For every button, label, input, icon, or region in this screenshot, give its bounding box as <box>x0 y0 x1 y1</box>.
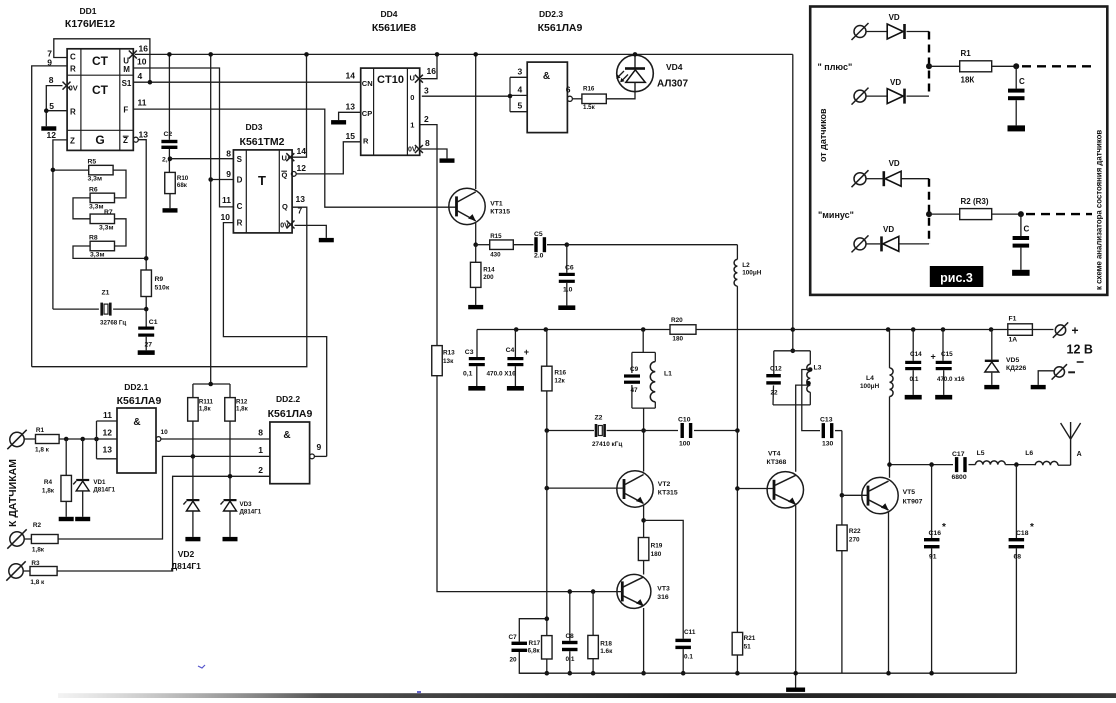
svg-text:CT: CT <box>92 83 109 97</box>
svg-text:1.0: 1.0 <box>563 287 573 294</box>
svg-text:1A: 1A <box>1009 337 1018 344</box>
svg-text:3,3м: 3,3м <box>89 204 103 211</box>
inset resistor R1 <box>960 49 992 85</box>
svg-text:VD: VD <box>890 78 901 87</box>
wire VT5 collector line <box>890 464 954 466</box>
inductor L4 100uH <box>860 330 893 465</box>
wire rail to tank top <box>642 330 644 353</box>
capacitor C16 <box>924 465 946 674</box>
junction C16 node <box>929 462 934 467</box>
label K176IE12 <box>65 18 115 30</box>
capacitor C14 <box>905 330 922 400</box>
svg-text:4: 4 <box>138 71 143 81</box>
inset dashed join minus <box>928 179 930 244</box>
wire mid rail right <box>696 329 793 331</box>
transistor VT2 KT315 <box>617 471 653 507</box>
DD2.1 pin12 label <box>103 428 113 438</box>
svg-text:430: 430 <box>490 252 501 259</box>
pin 10 label <box>137 57 147 67</box>
svg-text:D: D <box>237 176 243 185</box>
svg-text:180: 180 <box>651 551 662 558</box>
capacitor C1 <box>138 319 158 355</box>
DD3 pin8 label <box>226 149 231 159</box>
inset diode VD p1 <box>867 13 930 39</box>
svg-text:270: 270 <box>849 537 860 544</box>
capacitor C6 <box>558 245 575 310</box>
label KT315 (VT1) <box>490 209 510 216</box>
svg-text:8: 8 <box>258 428 263 438</box>
DD4 0V cross mark <box>415 145 423 153</box>
DD2.1 pin13 label <box>103 445 113 455</box>
capacitor C17 <box>952 451 976 481</box>
svg-text:510к: 510к <box>155 285 170 292</box>
svg-text:C14: C14 <box>910 351 922 358</box>
svg-text:КТ907: КТ907 <box>903 499 923 506</box>
svg-text:R4: R4 <box>44 479 53 486</box>
svg-text:Q: Q <box>282 202 288 211</box>
svg-text:R6: R6 <box>89 187 98 194</box>
junction S1/pin7 node <box>148 80 153 85</box>
junction VD4 top bus <box>633 52 638 57</box>
wire DD3 0V to ground <box>295 225 327 238</box>
svg-text:0V: 0V <box>69 84 78 93</box>
label 316 (VT3) <box>657 594 669 601</box>
capacitor C4 <box>487 330 529 391</box>
svg-text:&: & <box>543 71 550 82</box>
inset dashed join plus <box>928 32 930 97</box>
junction D-line vertical A <box>208 177 213 182</box>
inset wire R2 to C <box>992 213 1021 215</box>
DD2.1 output circle <box>156 437 161 442</box>
inset wire to R2 <box>929 213 960 215</box>
svg-text:К561ЛА9: К561ЛА9 <box>268 408 313 420</box>
svg-text:R13: R13 <box>443 350 455 357</box>
resistor R20 <box>670 317 696 343</box>
capacitor C3 <box>463 349 485 391</box>
svg-text:"минус": "минус" <box>818 210 854 220</box>
svg-text:VT3: VT3 <box>657 586 670 593</box>
svg-text:100: 100 <box>679 441 691 448</box>
junction C15 rail <box>941 327 946 332</box>
resistor R21 <box>732 632 756 673</box>
label D814G1 (VD2) <box>171 561 201 571</box>
wire DD2.1 out to DD2.2 pin8 <box>161 438 270 440</box>
DD3 pin14 label <box>297 146 307 156</box>
wire R6 left to R7 <box>73 198 90 219</box>
label VT4 <box>768 451 781 458</box>
svg-text:CP: CP <box>362 109 372 118</box>
DD4 pin15 label <box>346 131 356 141</box>
junction R20 node <box>791 327 796 332</box>
junction rail C3 <box>476 330 478 358</box>
wire DD3 Q pin13 to DD1 R <box>32 207 307 367</box>
junction Z1/C1 node <box>144 307 149 312</box>
svg-text:C2: C2 <box>164 131 173 138</box>
svg-text:C: C <box>70 53 76 62</box>
svg-text:К ДАТЧИКАМ: К ДАТЧИКАМ <box>7 459 19 527</box>
svg-text:3: 3 <box>518 66 523 76</box>
resistor R22 <box>837 495 861 673</box>
wire pin4 S1 to DD4 CN <box>133 81 360 83</box>
svg-text:R10: R10 <box>177 175 189 182</box>
svg-text:R18: R18 <box>600 641 612 648</box>
svg-text:20: 20 <box>510 657 518 664</box>
svg-text:C5: C5 <box>534 231 543 238</box>
svg-text:К561ЛА9: К561ЛА9 <box>538 22 583 34</box>
svg-text:R9: R9 <box>155 276 164 283</box>
svg-text:R8: R8 <box>89 235 98 242</box>
svg-text:КТ315: КТ315 <box>490 209 510 216</box>
inset junction R2/C <box>1018 211 1024 217</box>
svg-text:DD4: DD4 <box>380 9 397 19</box>
svg-text:C16: C16 <box>929 530 942 537</box>
wire C5 node to L2 <box>567 244 738 246</box>
wire pin16 U to supply bus <box>135 53 170 55</box>
junction R4 node <box>64 437 69 442</box>
svg-text:VD: VD <box>883 225 894 234</box>
wire VT3 base line from R13 <box>437 376 622 592</box>
svg-text:5: 5 <box>49 101 54 111</box>
svg-text:68к: 68к <box>177 182 188 189</box>
wire right power rail <box>793 329 991 331</box>
junction R18 rail <box>591 671 596 676</box>
wire F1 to +terminal <box>1032 329 1053 331</box>
svg-text:0,1: 0,1 <box>463 371 473 378</box>
svg-text:C: C <box>237 202 243 211</box>
inset junction minus <box>926 211 932 217</box>
junction L3 tap lower <box>806 381 811 386</box>
svg-text:14: 14 <box>297 146 307 156</box>
junction C11 rail <box>681 671 686 676</box>
svg-text:R7: R7 <box>104 209 113 216</box>
junction rail R16b <box>544 327 549 332</box>
capacitor C12 <box>766 366 782 397</box>
wire VT5 collector up <box>889 465 891 478</box>
junction C18 node <box>1014 462 1019 467</box>
svg-text:2: 2 <box>424 114 429 124</box>
junction vertical A top bus <box>208 52 213 57</box>
DD4 pin2 label <box>424 114 429 124</box>
svg-text:C7: C7 <box>509 634 518 641</box>
ground at DD4 0V <box>440 158 455 162</box>
pin 9 label <box>47 58 52 68</box>
svg-text:316: 316 <box>657 594 669 601</box>
wire R9 to Z1 node <box>145 297 147 327</box>
junction bracket center <box>208 382 213 387</box>
wire L5 to L6 <box>1005 464 1035 466</box>
label KT368 <box>767 459 787 466</box>
wire VT4 base <box>737 488 774 490</box>
wire L3 upper tap to C13 <box>802 370 820 431</box>
IC DD1 K176IE12 counter body <box>67 49 133 151</box>
label minus sign <box>1068 371 1075 373</box>
DD4 pin16 label <box>427 66 437 76</box>
svg-text:АЛ307: АЛ307 <box>657 79 688 90</box>
wire R2 to DD2.2 pin1 <box>58 456 270 539</box>
transistor VT3 316 <box>617 574 651 608</box>
DD3 pin13 label <box>296 194 306 204</box>
tank C9/L1 frame <box>632 352 655 408</box>
svg-text:Z1: Z1 <box>102 290 110 297</box>
wire R16 to LED <box>606 92 635 99</box>
label DD1 <box>79 6 96 16</box>
svg-text:R: R <box>363 136 369 145</box>
pin 5 label <box>49 101 54 111</box>
svg-text:8: 8 <box>49 75 54 85</box>
svg-text:27410 кГц: 27410 кГц <box>592 441 622 448</box>
label VT1 <box>490 201 503 208</box>
DD2.1 pin11 label <box>103 410 112 420</box>
svg-text:11: 11 <box>222 195 231 205</box>
svg-text:Д814Г1: Д814Г1 <box>93 487 115 494</box>
wire pin5 R stub <box>46 110 67 112</box>
svg-text:VD4: VD4 <box>666 62 683 72</box>
DD3 pin11 label <box>222 195 231 205</box>
label VT3 <box>657 586 670 593</box>
svg-text:2: 2 <box>258 465 263 475</box>
svg-text:G: G <box>95 133 104 147</box>
inset sensor terminal p1 <box>852 23 869 40</box>
resistor R14 <box>468 245 495 310</box>
label K561TM2 <box>240 136 285 148</box>
pin 13 inverted-output circle <box>133 137 138 142</box>
wire R8 left to Z-node <box>73 246 146 258</box>
label VD2 <box>178 549 195 559</box>
svg-text:S1: S1 <box>122 79 132 88</box>
svg-text:A: A <box>1077 451 1082 458</box>
DD3 pin9 label <box>226 169 231 179</box>
svg-text:L4: L4 <box>866 375 874 382</box>
svg-text:VT2: VT2 <box>658 481 671 488</box>
svg-text:R1: R1 <box>961 49 972 58</box>
svg-text:1,8 к: 1,8 к <box>35 447 50 454</box>
svg-text:3,3м: 3,3м <box>90 252 104 259</box>
svg-text:DD1: DD1 <box>79 6 96 16</box>
junction DD2.3 pin4 node <box>508 94 513 99</box>
svg-text:Д814Г1: Д814Г1 <box>171 561 201 571</box>
junction C2 top bus <box>167 52 172 57</box>
junction rail C4 <box>514 327 519 332</box>
DD3 0V cross mark <box>287 221 295 229</box>
fuse F1 <box>991 316 1032 344</box>
DD3 U cross mark <box>286 153 294 161</box>
svg-text:1,8 к: 1,8 к <box>30 579 45 586</box>
svg-text:0.1: 0.1 <box>910 376 919 383</box>
crystal Z2 <box>547 415 644 449</box>
svg-text:C17: C17 <box>952 451 965 458</box>
svg-text:12к: 12к <box>554 378 565 385</box>
wire VT1 emitter down <box>475 222 477 245</box>
junction tank L3 top <box>791 349 796 354</box>
svg-text:C8: C8 <box>566 633 575 640</box>
svg-text:0.1: 0.1 <box>684 654 693 661</box>
wire DD4 pin8 0V to ground <box>421 149 447 158</box>
zener VD3 <box>221 499 238 541</box>
svg-text:от датчиков: от датчиков <box>818 108 828 162</box>
svg-text:R16: R16 <box>583 86 595 93</box>
svg-text:C12: C12 <box>770 366 782 373</box>
junction R5/pin12 rail <box>51 168 56 173</box>
DD2.2 output circle <box>310 454 315 459</box>
svg-text:VT5: VT5 <box>903 489 916 496</box>
wire VT1 collector to bus <box>475 54 477 189</box>
wire pin10 M to DD3 C <box>133 68 233 207</box>
resistor R16 (LED) <box>582 86 606 112</box>
junction VT1 collector bus <box>473 52 478 57</box>
svg-text:К561ЛА9: К561ЛА9 <box>117 395 162 407</box>
inductor L6 <box>1025 450 1058 465</box>
wire top bus down right <box>792 54 794 350</box>
svg-text:КТ315: КТ315 <box>658 490 678 497</box>
DD2.2 pin8 label <box>258 428 263 438</box>
svg-text:VT1: VT1 <box>490 201 503 208</box>
svg-text:180: 180 <box>672 336 683 343</box>
DD2.1 pin10 label <box>161 429 169 436</box>
svg-text:F1: F1 <box>1009 316 1017 323</box>
svg-text:1: 1 <box>258 445 263 455</box>
junction VD1 node <box>80 437 85 442</box>
svg-text:68: 68 <box>1014 554 1022 561</box>
junction DD4-16 bus <box>435 52 440 57</box>
resistor R18 <box>588 592 613 674</box>
svg-text:+: + <box>931 352 936 362</box>
svg-text:Z2: Z2 <box>595 415 603 422</box>
svg-text:0: 0 <box>410 93 414 102</box>
DD2.3 pin4 label <box>518 84 523 94</box>
svg-text:M: M <box>123 65 130 74</box>
junction C14 rail <box>911 327 916 332</box>
svg-text:VD2: VD2 <box>178 549 195 559</box>
resistor R19 <box>638 538 662 561</box>
svg-text:11: 11 <box>138 98 147 108</box>
svg-text:14: 14 <box>346 71 356 81</box>
svg-text:C: C <box>1019 77 1025 86</box>
svg-text:рис.3: рис.3 <box>940 271 973 285</box>
svg-text:&: & <box>133 417 140 428</box>
svg-text:13: 13 <box>346 101 356 111</box>
DD2.3 input bracket <box>510 77 527 111</box>
svg-text:C10: C10 <box>678 417 691 424</box>
svg-text:2.0: 2.0 <box>534 253 544 260</box>
IC DD3 K561TM2 body <box>233 150 292 233</box>
svg-text:32768 Гц: 32768 Гц <box>100 320 126 327</box>
inset diode VD m1 <box>867 159 930 186</box>
junction R111 pin1 line <box>191 454 196 459</box>
pin 12 label <box>47 130 57 140</box>
svg-text:16: 16 <box>139 44 149 54</box>
svg-text:Z: Z <box>123 136 128 145</box>
wire R3 to DD2.2 pin2 <box>57 476 270 571</box>
inset wire R1 to C <box>992 65 1017 67</box>
zener VD1 <box>73 439 115 521</box>
svg-text:&: & <box>283 430 290 441</box>
label plus sign <box>1072 324 1079 338</box>
svg-text:+: + <box>1072 324 1079 338</box>
DD2.3 pin3 label <box>518 66 523 76</box>
capacitor C18 <box>1009 465 1034 674</box>
svg-text:C3: C3 <box>465 349 474 356</box>
svg-text:0V: 0V <box>280 223 289 230</box>
transistor VT1 KT315 <box>449 188 485 224</box>
wire pin8 0V to ground <box>46 86 62 127</box>
capacitor C9 <box>624 366 640 394</box>
wire R16b cont down <box>546 431 548 636</box>
label VT5 <box>903 489 916 496</box>
svg-text:CT10: CT10 <box>377 74 404 86</box>
pin 16 power cross mark <box>129 51 137 59</box>
svg-text:VD: VD <box>889 13 900 22</box>
wire emitter node to C11 <box>644 520 684 638</box>
junction VT5 emitter rail <box>886 671 891 676</box>
wire VT4 emitter down <box>795 506 797 674</box>
svg-text:47: 47 <box>631 387 639 394</box>
ground at -terminal <box>1031 385 1046 389</box>
svg-text:C: C <box>1024 225 1030 234</box>
junction C10 right node <box>735 428 740 433</box>
svg-text:C1: C1 <box>149 319 158 326</box>
wire L6 to antenna <box>1058 464 1071 466</box>
sensor terminal 3 <box>6 561 25 580</box>
svg-text:18К: 18К <box>961 76 975 85</box>
IC DD2.2 K561LA9 body <box>270 422 310 484</box>
DD3 pin7 label <box>298 206 303 216</box>
junction VT3-base R18 <box>591 589 596 594</box>
wire DD3 D to divider rail <box>211 179 234 181</box>
svg-text:R2: R2 <box>33 522 42 529</box>
junction R17 rail <box>545 671 550 676</box>
svg-text:К561ТМ2: К561ТМ2 <box>240 136 285 148</box>
junction L4 rail <box>886 327 891 332</box>
DD2.3 pin6 label <box>566 85 571 95</box>
label AL307 <box>657 79 688 90</box>
resistor R6 <box>89 187 115 211</box>
pin 4 label <box>138 71 143 81</box>
svg-text:DD2.1: DD2.1 <box>124 382 148 392</box>
inset sensor terminal m2 <box>852 235 869 252</box>
resistor R1 input <box>25 427 60 454</box>
inductor L5 <box>975 450 1005 465</box>
DD2.3 output circle <box>567 96 572 101</box>
resistor R5 <box>88 159 114 183</box>
ground symbol on rail <box>786 673 805 692</box>
junction bracket node <box>94 437 99 442</box>
svg-text:1,8к: 1,8к <box>236 406 249 413</box>
wire R111 down <box>192 421 194 499</box>
junction VT2 base R16b <box>545 486 550 491</box>
inset frame ris.3 <box>810 7 1107 295</box>
label DD2.3 <box>539 9 563 19</box>
svg-text:12 В: 12 В <box>1067 343 1093 357</box>
svg-text:F: F <box>123 106 128 115</box>
svg-text:13: 13 <box>139 130 149 140</box>
svg-text:DD2.2: DD2.2 <box>276 394 300 404</box>
junction VD5 rail <box>989 327 994 332</box>
svg-text:6: 6 <box>566 85 571 95</box>
DD2.2 pin9 label <box>317 442 322 452</box>
capacitor C11 <box>675 629 695 673</box>
svg-text:R5: R5 <box>88 159 97 166</box>
IC DD4 K561IE8 body <box>361 68 420 155</box>
- terminal <box>1052 364 1067 379</box>
svg-text:R: R <box>70 65 76 74</box>
minus small dash <box>1077 361 1084 363</box>
+ terminal <box>1053 322 1068 337</box>
svg-text:51: 51 <box>744 644 752 651</box>
svg-text:C4: C4 <box>506 347 515 354</box>
svg-text:C6: C6 <box>565 265 574 272</box>
svg-text:3,3м: 3,3м <box>88 176 102 183</box>
svg-text:R3: R3 <box>31 560 40 567</box>
